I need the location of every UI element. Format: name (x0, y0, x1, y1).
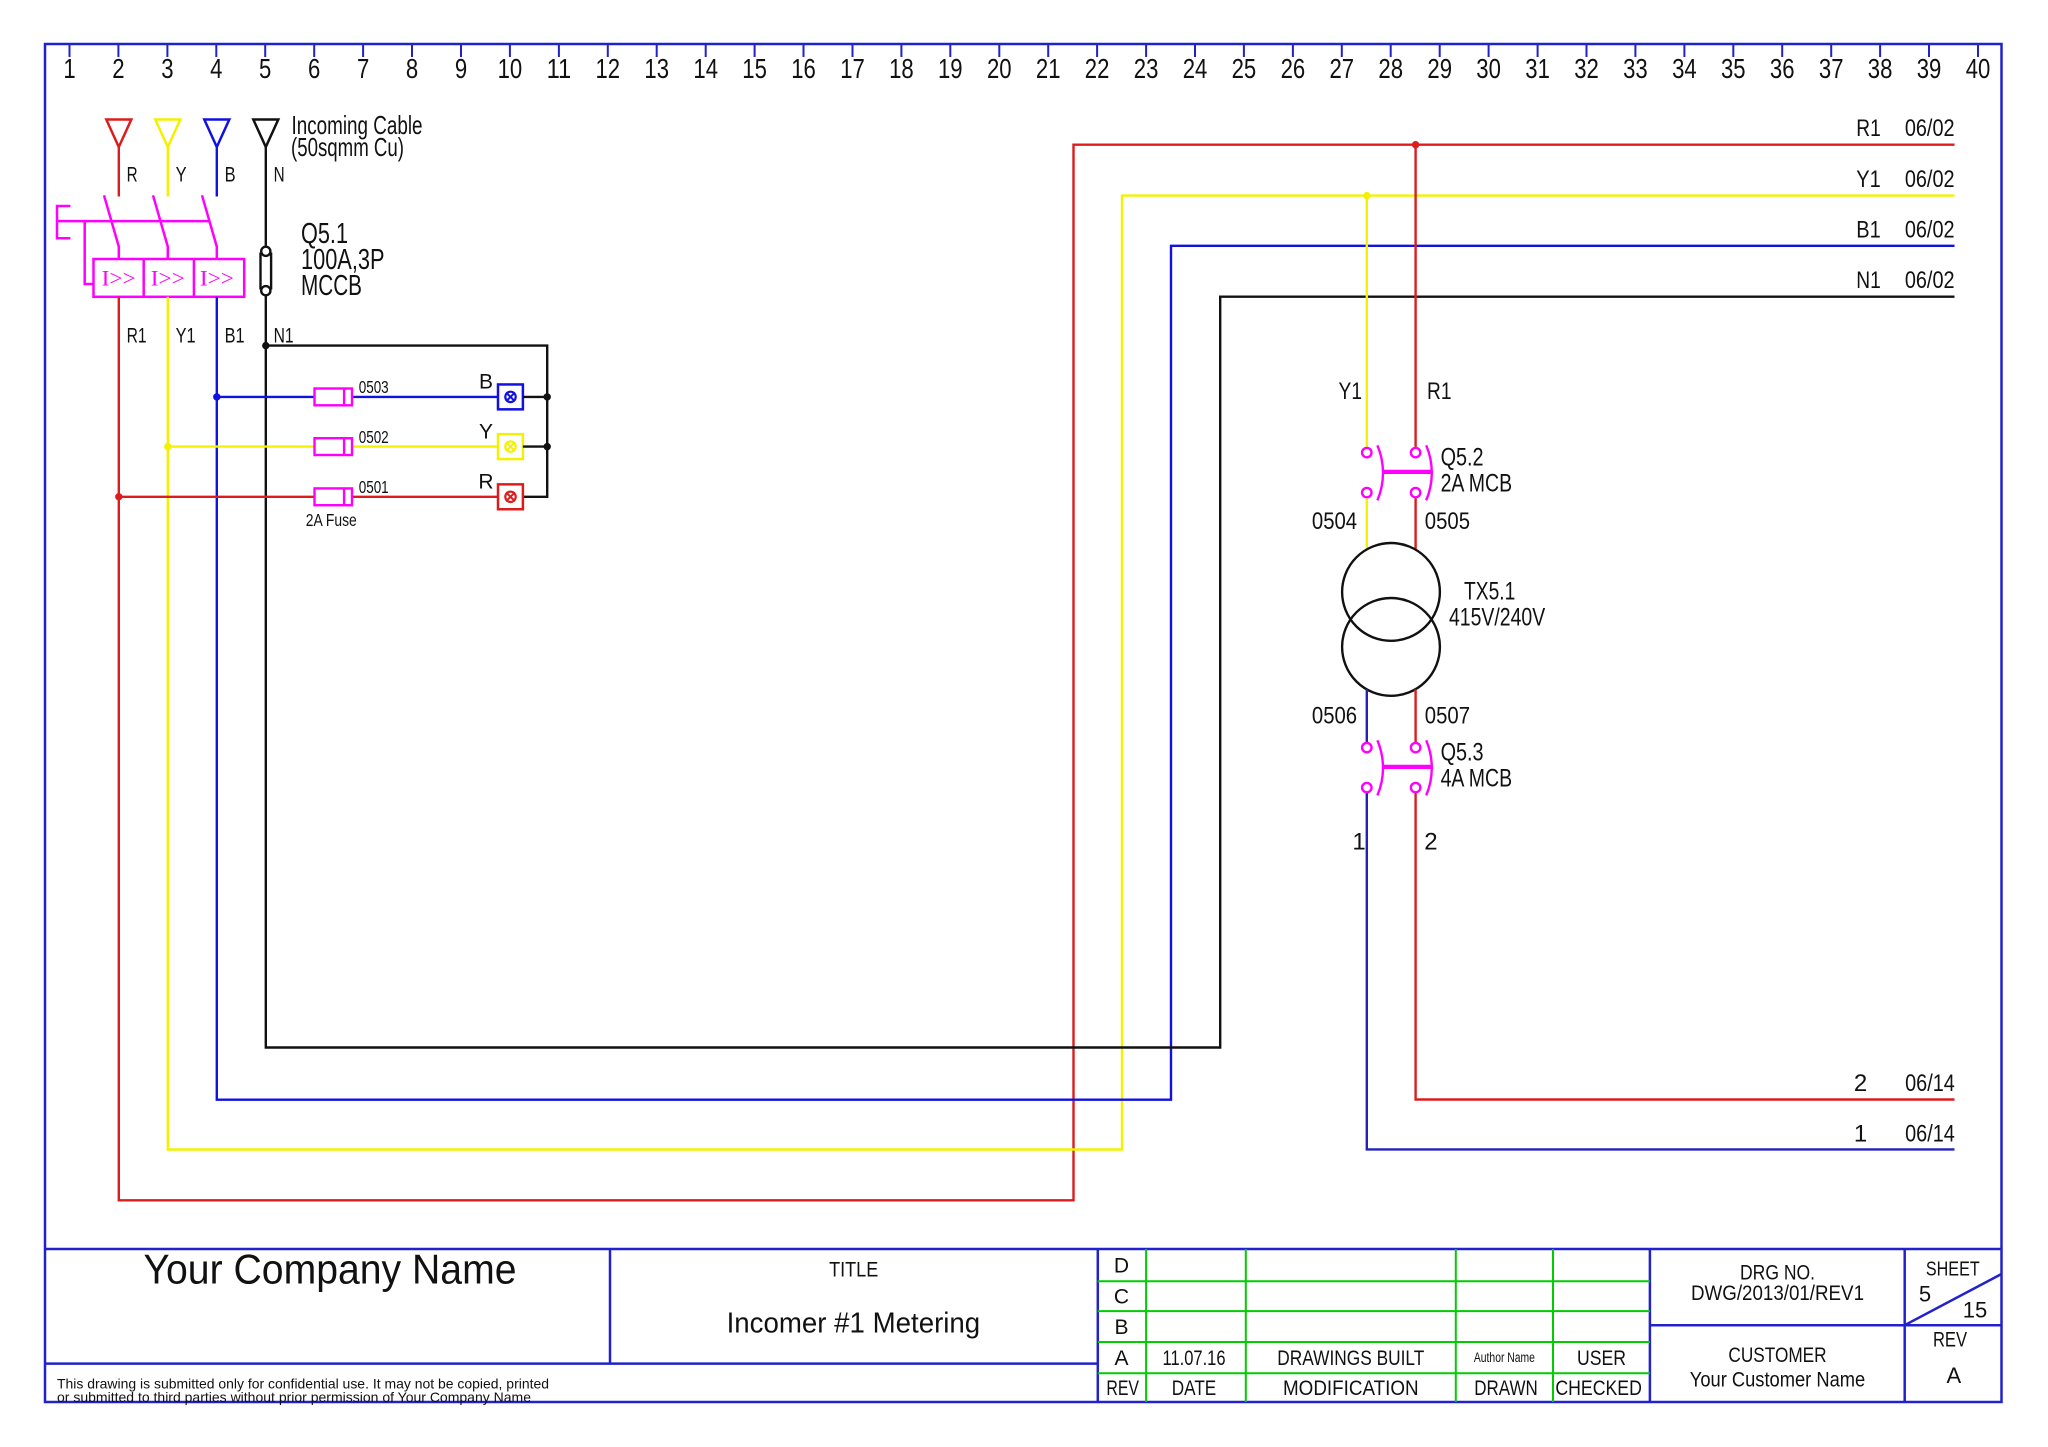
svg-text:34: 34 (1672, 53, 1697, 84)
cable entry B (incoming arrow) (204, 120, 229, 148)
svg-text:10: 10 (498, 53, 523, 84)
cable entry Y (incoming arrow) (155, 120, 180, 148)
wire phase B lamp branch (217, 396, 315, 398)
svg-text:11: 11 (547, 53, 572, 84)
circuit breaker Q5.3 (4A MCB) (1362, 740, 1432, 795)
svg-text:18: 18 (889, 53, 914, 84)
svg-text:(50sqmm Cu): (50sqmm Cu) (291, 132, 404, 162)
svg-text:22: 22 (1085, 53, 1110, 84)
svg-text:4A MCB: 4A MCB (1441, 765, 1513, 793)
wire N1 net (black run) (266, 296, 1955, 1048)
svg-text:DRAWINGS BUILT: DRAWINGS BUILT (1277, 1347, 1424, 1370)
svg-text:SHEET: SHEET (1926, 1258, 1980, 1280)
svg-text:2: 2 (1854, 1070, 1867, 1097)
svg-text:14: 14 (693, 53, 718, 84)
svg-text:R1: R1 (1856, 115, 1881, 142)
junction tap on R riser (115, 493, 122, 500)
svg-text:415V/240V: 415V/240V (1449, 603, 1545, 631)
svg-text:1: 1 (1352, 829, 1365, 856)
svg-text:28: 28 (1378, 53, 1403, 84)
wire B stem (216, 147, 218, 197)
cable entry N (incoming arrow) (253, 120, 278, 148)
fuse 0503 (2A) (315, 389, 353, 406)
svg-text:or submitted to third parties: or submitted to third parties without pr… (57, 1389, 531, 1405)
fuse 0502 (2A) (315, 438, 353, 455)
svg-text:I>>: I>> (200, 266, 234, 291)
lamp R (indicator light) (498, 484, 523, 509)
svg-text:33: 33 (1623, 53, 1648, 84)
svg-text:C: C (1114, 1286, 1129, 1309)
svg-text:TX5.1: TX5.1 (1464, 578, 1515, 606)
svg-text:31: 31 (1525, 53, 1550, 84)
lamp B (indicator light) (498, 384, 523, 409)
svg-text:06/14: 06/14 (1905, 1121, 1955, 1148)
svg-text:USER: USER (1577, 1347, 1626, 1370)
svg-text:Y1: Y1 (1856, 166, 1881, 193)
svg-text:N1: N1 (274, 324, 294, 347)
wire 0505 (Q5.2 to TX5.1) (1414, 498, 1416, 549)
svg-text:CHECKED: CHECKED (1555, 1377, 1642, 1400)
wire 0506 (TX5.1 to Q5.3) (1366, 689, 1368, 742)
wire R1 net (red run) (119, 145, 1955, 1201)
svg-text:7: 7 (357, 53, 369, 84)
junction tap on B riser (213, 393, 220, 400)
transformer TX5.1 (415V/240V) (1342, 543, 1440, 696)
circuit breaker Q5.1 (100A 3P MCCB) (57, 195, 244, 296)
svg-text:19: 19 (938, 53, 963, 84)
svg-text:Y1: Y1 (1339, 378, 1363, 405)
svg-text:N: N (274, 164, 285, 187)
svg-text:0501: 0501 (359, 477, 389, 497)
svg-text:0505: 0505 (1425, 508, 1470, 535)
cable entry R (incoming arrow) (106, 120, 131, 148)
svg-text:0503: 0503 (359, 377, 389, 397)
svg-text:29: 29 (1427, 53, 1452, 84)
svg-text:Y1: Y1 (176, 324, 196, 347)
junction N1 tap (262, 342, 269, 349)
svg-text:DRAWN: DRAWN (1474, 1377, 1538, 1400)
svg-text:2: 2 (112, 53, 124, 84)
wire N stem (265, 147, 267, 246)
svg-text:11.07.16: 11.07.16 (1163, 1347, 1226, 1370)
svg-text:0504: 0504 (1312, 508, 1357, 535)
wire net 1 (Q5.3 output) (1367, 793, 1955, 1149)
svg-text:Incomer #1 Metering: Incomer #1 Metering (727, 1307, 981, 1339)
svg-text:CUSTOMER: CUSTOMER (1728, 1344, 1826, 1367)
svg-text:06/02: 06/02 (1905, 217, 1955, 244)
svg-text:6: 6 (308, 53, 320, 84)
svg-text:26: 26 (1281, 53, 1306, 84)
svg-text:20: 20 (987, 53, 1012, 84)
svg-text:R1: R1 (1427, 378, 1452, 405)
svg-text:Author Name: Author Name (1474, 1350, 1535, 1365)
svg-text:2A MCB: 2A MCB (1441, 470, 1513, 498)
wire 0504 (Q5.2 to TX5.1) (1366, 498, 1368, 549)
wire net 2 (Q5.3 output) (1416, 793, 1955, 1099)
svg-text:39: 39 (1917, 53, 1942, 84)
wire Y stem (167, 147, 169, 197)
svg-text:REV: REV (1933, 1328, 1967, 1351)
svg-text:N1: N1 (1856, 267, 1881, 294)
junction Y1 tap to metering (1363, 192, 1370, 199)
wire phase Y lamp branch (168, 445, 315, 447)
wire R1 drop to Q5.2 (1414, 145, 1416, 447)
svg-text:Your Customer Name: Your Customer Name (1690, 1368, 1865, 1391)
junction R1 tap to metering (1412, 141, 1419, 148)
wire Y1 drop to Q5.2 (1366, 196, 1368, 447)
svg-text:40: 40 (1966, 53, 1991, 84)
svg-text:B1: B1 (225, 324, 245, 347)
svg-text:8: 8 (406, 53, 418, 84)
svg-text:B: B (225, 164, 236, 187)
svg-text:5: 5 (1919, 1282, 1931, 1307)
svg-text:B1: B1 (1856, 217, 1881, 244)
svg-text:06/02: 06/02 (1905, 267, 1955, 294)
svg-text:2: 2 (1424, 829, 1437, 856)
svg-text:27: 27 (1330, 53, 1355, 84)
svg-text:Your Company Name: Your Company Name (144, 1246, 517, 1293)
svg-text:A: A (1947, 1363, 1962, 1388)
svg-text:D: D (1114, 1255, 1129, 1278)
svg-text:R1: R1 (127, 324, 147, 347)
wire phase R lamp branch (119, 496, 315, 498)
svg-text:Y: Y (176, 164, 187, 187)
svg-text:15: 15 (742, 53, 767, 84)
svg-text:38: 38 (1868, 53, 1893, 84)
svg-text:I>>: I>> (151, 266, 185, 291)
svg-text:R: R (127, 164, 138, 187)
svg-text:06/02: 06/02 (1905, 166, 1955, 193)
svg-text:30: 30 (1476, 53, 1501, 84)
svg-text:1: 1 (1854, 1121, 1867, 1148)
svg-text:5: 5 (259, 53, 271, 84)
wire N1 lamp return bus (266, 346, 547, 497)
svg-text:35: 35 (1721, 53, 1746, 84)
svg-text:25: 25 (1232, 53, 1257, 84)
svg-text:06/14: 06/14 (1905, 1070, 1955, 1097)
svg-text:TITLE: TITLE (829, 1258, 878, 1281)
wire Y1 net (yellow run) (168, 196, 1955, 1150)
svg-text:06/02: 06/02 (1905, 115, 1955, 142)
svg-text:DRG NO.: DRG NO. (1740, 1261, 1815, 1284)
svg-text:0502: 0502 (359, 427, 389, 447)
svg-text:B: B (1114, 1316, 1128, 1339)
svg-text:MODIFICATION: MODIFICATION (1283, 1377, 1419, 1400)
svg-text:17: 17 (840, 53, 865, 84)
svg-text:24: 24 (1183, 53, 1208, 84)
svg-text:Y: Y (479, 420, 493, 443)
svg-text:R: R (478, 471, 493, 494)
svg-text:0507: 0507 (1425, 703, 1470, 730)
svg-text:B: B (479, 371, 493, 394)
svg-text:MCCB: MCCB (301, 270, 362, 302)
wire lamp Y to N bus (523, 445, 547, 447)
lamp Y (indicator light) (498, 434, 523, 459)
svg-text:1: 1 (63, 53, 75, 84)
svg-text:Q5.2: Q5.2 (1441, 443, 1484, 471)
svg-text:4: 4 (210, 53, 222, 84)
svg-text:16: 16 (791, 53, 816, 84)
svg-text:12: 12 (596, 53, 621, 84)
svg-text:Q5.3: Q5.3 (1441, 738, 1484, 766)
svg-text:21: 21 (1036, 53, 1061, 84)
svg-text:13: 13 (644, 53, 669, 84)
svg-text:I>>: I>> (102, 266, 136, 291)
wire B1 net (blue run) (217, 246, 1955, 1100)
svg-text:36: 36 (1770, 53, 1795, 84)
svg-text:15: 15 (1963, 1298, 1987, 1323)
circuit breaker Q5.2 (2A MCB) (1362, 445, 1432, 500)
svg-text:9: 9 (455, 53, 467, 84)
svg-text:REV: REV (1106, 1377, 1139, 1400)
svg-text:23: 23 (1134, 53, 1159, 84)
svg-text:0506: 0506 (1312, 703, 1357, 730)
svg-text:3: 3 (161, 53, 173, 84)
junction on lamp return bus (544, 393, 551, 400)
neutral link on N (261, 247, 272, 296)
svg-text:DATE: DATE (1172, 1377, 1217, 1400)
svg-text:DWG/2013/01/REV1: DWG/2013/01/REV1 (1691, 1282, 1864, 1305)
junction tap on Y riser (164, 443, 171, 450)
junction on lamp return bus (544, 443, 551, 450)
wire 0507 (TX5.1 to Q5.3) (1414, 689, 1416, 742)
title block (45, 1249, 2002, 1402)
wire lamp B to N bus (523, 396, 547, 398)
fuse 0501 (2A) (315, 488, 353, 505)
svg-text:A: A (1114, 1347, 1128, 1370)
svg-text:37: 37 (1819, 53, 1844, 84)
svg-text:32: 32 (1574, 53, 1599, 84)
wire R stem (118, 147, 120, 197)
svg-text:2A Fuse: 2A Fuse (306, 510, 357, 530)
